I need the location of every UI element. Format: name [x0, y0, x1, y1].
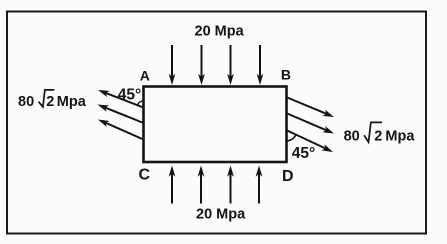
left shear arrow 3 — [97, 116, 144, 139]
svg-text:2: 2 — [374, 129, 382, 145]
left shear arrow 2 — [96, 101, 143, 123]
svg-text:80: 80 — [344, 129, 360, 145]
svg-text:B: B — [281, 67, 291, 83]
svg-text:D: D — [282, 168, 294, 185]
right shear arrow 3 — [286, 130, 334, 155]
svg-text:Mpa: Mpa — [57, 94, 87, 110]
bottom load arrow 2 — [198, 166, 205, 204]
top load arrow 4 — [257, 45, 264, 85]
right stress value label 80 sqrt2 Mpa — [344, 122, 416, 144]
right shear arrow 2 — [286, 113, 335, 137]
svg-text:45°: 45° — [118, 87, 141, 104]
svg-text:20 Mpa: 20 Mpa — [195, 24, 245, 40]
left shear arrow 1 — [97, 87, 144, 108]
svg-text:2: 2 — [46, 94, 54, 110]
svg-text:A: A — [140, 68, 150, 84]
svg-text:Mpa: Mpa — [385, 129, 415, 145]
bottom load arrow 1 — [169, 166, 176, 204]
top load arrow 1 — [169, 45, 176, 85]
top load arrow 3 — [227, 45, 234, 85]
svg-text:45°: 45° — [292, 145, 315, 162]
bottom load arrow 4 — [256, 166, 263, 204]
left 45 degree angle arc at A — [137, 101, 143, 105]
svg-text:C: C — [139, 167, 151, 184]
left stress value label 80 sqrt2 Mpa — [18, 90, 87, 110]
right shear arrow 1 — [286, 97, 335, 120]
top load arrow 2 — [198, 45, 205, 85]
right 45 degree angle arc at D — [286, 135, 296, 141]
bottom load arrow 3 — [227, 166, 234, 204]
svg-text:80: 80 — [18, 94, 34, 110]
stress element rectangle ABCD — [144, 87, 287, 163]
svg-text:20 Mpa: 20 Mpa — [196, 206, 246, 222]
